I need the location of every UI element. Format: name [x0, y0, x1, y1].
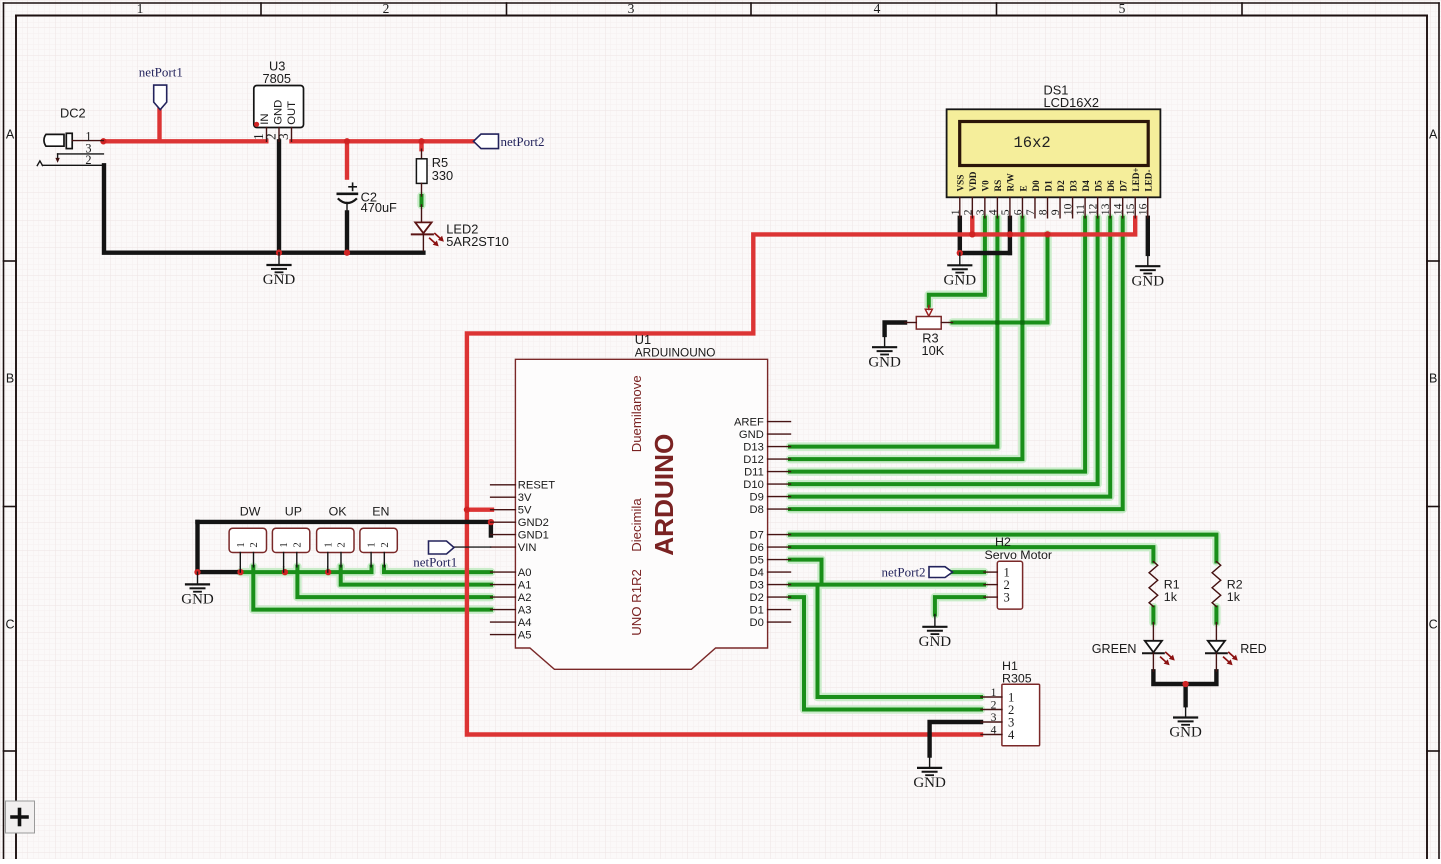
- svg-text:3V: 3V: [518, 492, 532, 504]
- svg-text:11: 11: [1074, 204, 1087, 215]
- svg-text:R305: R305: [1002, 672, 1032, 686]
- svg-text:A: A: [1429, 127, 1438, 141]
- svg-text:5: 5: [1119, 1, 1126, 16]
- svg-text:14: 14: [1112, 203, 1125, 215]
- svg-text:GREEN: GREEN: [1092, 642, 1137, 656]
- svg-text:D2: D2: [749, 592, 763, 604]
- svg-text:E: E: [1018, 185, 1028, 191]
- svg-text:C: C: [5, 617, 14, 631]
- svg-text:UP: UP: [285, 504, 302, 518]
- svg-text:B: B: [1429, 372, 1437, 386]
- svg-text:GND: GND: [1132, 273, 1165, 289]
- svg-text:Diecimila: Diecimila: [629, 498, 644, 552]
- svg-text:ARDUINOUNO: ARDUINOUNO: [635, 345, 716, 359]
- svg-text:16: 16: [1137, 203, 1150, 215]
- svg-text:OUT: OUT: [286, 101, 298, 125]
- svg-text:AREF: AREF: [734, 417, 764, 429]
- svg-text:GND2: GND2: [518, 517, 549, 529]
- svg-text:GND: GND: [739, 429, 764, 441]
- svg-text:1k: 1k: [1164, 590, 1178, 604]
- svg-text:2: 2: [248, 542, 260, 547]
- svg-text:D7: D7: [749, 530, 763, 542]
- svg-text:3: 3: [974, 209, 987, 215]
- svg-text:470uF: 470uF: [361, 200, 397, 215]
- svg-text:D11: D11: [744, 467, 764, 479]
- svg-text:2: 2: [336, 542, 348, 547]
- svg-text:7805: 7805: [263, 71, 291, 86]
- svg-text:2: 2: [291, 542, 303, 547]
- svg-text:GND1: GND1: [518, 530, 549, 542]
- svg-text:2: 2: [85, 153, 91, 167]
- svg-text:LED-: LED-: [1144, 170, 1154, 192]
- svg-text:D2: D2: [1056, 180, 1066, 192]
- svg-text:2: 2: [991, 698, 997, 711]
- svg-text:LCD16X2: LCD16X2: [1044, 95, 1100, 110]
- svg-text:6: 6: [1011, 209, 1024, 215]
- svg-text:GND: GND: [944, 273, 977, 289]
- svg-text:VIN: VIN: [518, 542, 537, 554]
- svg-text:Servo Motor: Servo Motor: [985, 548, 1052, 562]
- svg-text:D4: D4: [749, 567, 763, 579]
- svg-text:12: 12: [1087, 203, 1100, 215]
- svg-text:15: 15: [1124, 203, 1137, 215]
- svg-text:GND: GND: [273, 100, 285, 125]
- svg-text:330: 330: [432, 168, 453, 183]
- svg-text:D6: D6: [749, 542, 763, 554]
- svg-text:D9: D9: [749, 492, 763, 504]
- svg-text:GND: GND: [1169, 725, 1202, 741]
- svg-text:7: 7: [1024, 209, 1037, 215]
- svg-text:4: 4: [986, 209, 999, 215]
- svg-text:D0: D0: [749, 617, 763, 629]
- svg-text:D3: D3: [1068, 180, 1078, 192]
- svg-text:VSS: VSS: [956, 175, 966, 192]
- svg-text:2: 2: [379, 542, 391, 547]
- svg-text:D3: D3: [749, 580, 763, 592]
- svg-text:D6: D6: [1106, 180, 1116, 192]
- svg-text:UNO R1R2: UNO R1R2: [629, 569, 644, 636]
- svg-text:A3: A3: [518, 605, 532, 617]
- svg-text:DW: DW: [240, 504, 261, 518]
- svg-text:1: 1: [991, 686, 997, 699]
- svg-text:D5: D5: [749, 555, 763, 567]
- svg-text:Duemilanove: Duemilanove: [629, 375, 644, 452]
- svg-text:EN: EN: [372, 504, 389, 518]
- svg-text:RS: RS: [993, 180, 1003, 192]
- svg-text:LED+: LED+: [1131, 167, 1141, 191]
- svg-text:A4: A4: [518, 617, 532, 629]
- svg-text:A2: A2: [518, 592, 532, 604]
- svg-text:1: 1: [278, 542, 290, 547]
- svg-text:D13: D13: [743, 442, 764, 454]
- svg-text:8: 8: [1037, 209, 1050, 215]
- svg-text:13: 13: [1099, 203, 1112, 215]
- svg-text:GND: GND: [263, 272, 296, 288]
- svg-text:1: 1: [137, 1, 144, 16]
- svg-text:3: 3: [628, 1, 635, 16]
- svg-text:ARDUINO: ARDUINO: [649, 434, 679, 556]
- svg-text:D10: D10: [743, 479, 764, 491]
- svg-text:A0: A0: [518, 567, 532, 579]
- svg-text:D1: D1: [749, 605, 763, 617]
- svg-text:4: 4: [1008, 728, 1015, 742]
- svg-text:D12: D12: [743, 454, 764, 466]
- svg-text:GND: GND: [919, 634, 952, 650]
- svg-text:A5: A5: [518, 630, 532, 642]
- svg-text:netPort1: netPort1: [139, 65, 183, 80]
- svg-text:3: 3: [276, 133, 291, 140]
- svg-text:B: B: [6, 372, 14, 386]
- svg-text:netPort1: netPort1: [413, 554, 457, 569]
- svg-text:4: 4: [874, 1, 881, 16]
- svg-text:D5: D5: [1093, 180, 1103, 192]
- svg-text:5: 5: [999, 209, 1012, 215]
- svg-text:1: 1: [235, 542, 247, 547]
- svg-text:1: 1: [366, 542, 378, 547]
- svg-text:10K: 10K: [922, 343, 945, 358]
- svg-text:GND: GND: [913, 775, 946, 791]
- svg-text:netPort2: netPort2: [501, 134, 545, 149]
- svg-text:4: 4: [991, 723, 997, 736]
- svg-text:C: C: [1429, 617, 1438, 631]
- svg-text:2: 2: [383, 1, 390, 16]
- svg-text:2: 2: [961, 209, 974, 215]
- svg-text:D7: D7: [1118, 180, 1128, 192]
- svg-text:D0: D0: [1031, 180, 1041, 192]
- svg-text:IN: IN: [259, 113, 271, 124]
- svg-text:DC2: DC2: [60, 105, 86, 120]
- svg-text:R/W: R/W: [1006, 172, 1016, 191]
- svg-text:GND: GND: [868, 354, 901, 370]
- svg-text:A1: A1: [518, 580, 532, 592]
- svg-text:9: 9: [1049, 209, 1062, 215]
- svg-text:5AR2ST10: 5AR2ST10: [446, 234, 509, 249]
- svg-text:3: 3: [991, 711, 997, 724]
- svg-text:V0: V0: [981, 180, 991, 192]
- svg-text:D8: D8: [749, 504, 763, 516]
- svg-text:netPort2: netPort2: [882, 564, 926, 579]
- svg-text:OK: OK: [329, 504, 348, 518]
- svg-text:RESET: RESET: [518, 480, 555, 492]
- svg-text:RED: RED: [1240, 642, 1267, 656]
- svg-text:1k: 1k: [1227, 590, 1241, 604]
- svg-text:D4: D4: [1081, 180, 1091, 192]
- svg-text:10: 10: [1062, 203, 1075, 215]
- svg-text:GND: GND: [181, 592, 214, 608]
- svg-text:5V: 5V: [518, 505, 532, 517]
- svg-text:1: 1: [322, 542, 334, 547]
- svg-text:3: 3: [1004, 591, 1010, 605]
- svg-text:1: 1: [949, 209, 962, 215]
- svg-text:A: A: [6, 127, 15, 141]
- svg-text:D1: D1: [1043, 180, 1053, 192]
- svg-text:VDD: VDD: [968, 171, 978, 191]
- svg-text:16x2: 16x2: [1014, 134, 1051, 152]
